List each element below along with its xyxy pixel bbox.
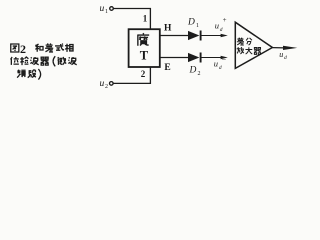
caption line 3: 频段） <box>17 70 26 78</box>
svg-text:u: u <box>279 50 283 59</box>
wire u1 to magic-T port 1 <box>113 9 150 30</box>
amp text 放大器 <box>237 47 261 54</box>
svg-text:1: 1 <box>105 9 108 15</box>
output arrowhead <box>283 46 297 50</box>
svg-text:u: u <box>214 59 218 69</box>
svg-text:2: 2 <box>105 84 108 90</box>
svg-text:H: H <box>164 24 172 34</box>
caption line 2: 位检波器（微波 <box>11 57 19 65</box>
svg-text:1: 1 <box>196 23 199 29</box>
svg-text:T: T <box>140 49 149 63</box>
svg-text:u: u <box>100 4 105 14</box>
wire H to diode D1 <box>160 35 188 37</box>
wire E to diode D2 <box>160 57 188 59</box>
svg-text:d: d <box>284 55 287 61</box>
svg-text:1: 1 <box>143 14 148 24</box>
svg-text:+: + <box>223 16 227 24</box>
svg-text:2: 2 <box>198 71 201 77</box>
caption open paren <box>53 56 55 66</box>
svg-text:2: 2 <box>141 69 146 79</box>
terminal circle u1 <box>110 7 114 11</box>
wire D1 to amp, arrowhead <box>201 35 222 37</box>
amp text 差分 <box>237 38 252 45</box>
wire u2 to magic-T port 2 <box>113 67 150 83</box>
svg-text:2: 2 <box>20 42 26 56</box>
svg-text:u: u <box>100 79 105 89</box>
wire D2 to amp, arrowhead <box>201 57 222 59</box>
svg-text:−: − <box>222 56 227 65</box>
terminal circle u2 <box>110 82 114 86</box>
output wire <box>272 47 285 49</box>
svg-text:E: E <box>164 63 170 73</box>
svg-text:D: D <box>189 66 197 76</box>
diode D2 <box>188 53 199 62</box>
diode D1 <box>188 31 199 40</box>
svg-text:D: D <box>187 18 195 28</box>
svg-text:d: d <box>220 27 223 33</box>
caption line 1: 图2 和差式相 <box>11 44 19 52</box>
svg-text:u: u <box>215 21 219 31</box>
魔 glyph inside box <box>137 33 149 45</box>
caption close paren <box>38 69 40 80</box>
magic-T box <box>129 29 160 67</box>
svg-text:d: d <box>219 65 222 71</box>
op-amp U1 (differential amplifier) <box>235 22 272 68</box>
